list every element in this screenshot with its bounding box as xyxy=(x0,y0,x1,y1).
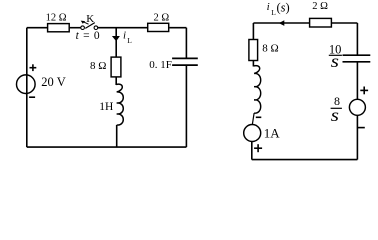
voltage source 8/s xyxy=(349,99,365,115)
voltage source 20V xyxy=(17,75,36,94)
svg-text:s: s xyxy=(331,105,339,125)
inductor 1H xyxy=(116,84,123,125)
label - of 20V source xyxy=(29,96,35,98)
svg-text:L: L xyxy=(271,8,276,17)
svg-text:8 Ω: 8 Ω xyxy=(90,60,106,72)
label + of 1A source xyxy=(254,144,262,152)
label + of 8/s source xyxy=(360,87,368,95)
svg-text:12 Ω: 12 Ω xyxy=(46,13,67,24)
svg-text:i: i xyxy=(123,30,126,42)
svg-text:2 Ω: 2 Ω xyxy=(154,13,170,24)
wire box to coil (right) xyxy=(252,61,254,67)
switch K pole a xyxy=(81,26,85,30)
svg-text:s: s xyxy=(331,51,339,71)
wire bottom (left circuit) xyxy=(27,146,187,148)
wire right vertical lower xyxy=(185,66,187,148)
inductor of right circuit xyxy=(254,66,261,114)
wire 2ohm to top-right corner xyxy=(332,22,357,24)
capacitor 10/s top plate xyxy=(343,54,371,56)
svg-text:0. 1F: 0. 1F xyxy=(149,59,172,71)
switch K pole b xyxy=(94,26,98,30)
label + of 20V source xyxy=(30,64,37,71)
switch K blade xyxy=(85,23,95,29)
label 8/s fraction xyxy=(331,94,342,125)
svg-text:i: i xyxy=(267,1,270,13)
resistor 2ohm (right circuit) xyxy=(310,18,332,27)
svg-text:2 Ω: 2 Ω xyxy=(312,1,328,12)
svg-text:8 Ω: 8 Ω xyxy=(262,43,278,55)
wire switch to junction to 2ohm xyxy=(98,27,148,29)
wire right vertical upper xyxy=(185,28,187,58)
label 10/s fraction xyxy=(329,43,342,71)
wire 2ohm to top-right corner xyxy=(169,27,186,29)
label iL xyxy=(123,30,132,45)
arrow iL current direction xyxy=(112,36,120,41)
label - of 1A source xyxy=(256,116,261,118)
wire left vertical xyxy=(26,28,28,147)
label iL(s) xyxy=(267,1,290,17)
svg-text:L: L xyxy=(127,36,132,45)
wire top-left segment xyxy=(27,27,47,29)
resistor 12ohm xyxy=(48,24,70,32)
resistor 2ohm (left circuit) xyxy=(148,23,169,31)
wire 8/s source to bottom-right corner xyxy=(356,115,358,159)
svg-text:(s): (s) xyxy=(277,1,290,15)
svg-text:1H: 1H xyxy=(99,101,113,113)
resistor 8ohm (left circuit) xyxy=(111,57,121,77)
wire coil to bottom xyxy=(116,125,118,147)
label - of 8/s source xyxy=(358,127,365,129)
wire middle branch upper xyxy=(115,28,117,57)
wire coil to 1A source xyxy=(252,113,254,125)
svg-text:20 V: 20 V xyxy=(41,75,65,89)
source 1A xyxy=(244,125,261,142)
switch K actuation arrow xyxy=(81,21,89,25)
capacitor 0.1F bottom plate xyxy=(172,64,198,66)
capacitor 0.1F top plate xyxy=(172,57,198,59)
wire right vertical upper xyxy=(356,23,358,55)
capacitor 10/s bottom plate xyxy=(343,61,371,63)
svg-text:t = 0: t = 0 xyxy=(76,30,101,42)
wire top (right circuit) xyxy=(253,22,309,24)
svg-text:1A: 1A xyxy=(264,125,281,140)
resistor 8ohm (right circuit) xyxy=(249,40,258,61)
wire bottom (right circuit) xyxy=(252,159,358,161)
svg-text:K: K xyxy=(86,13,94,25)
wire 1A source to bottom (right circuit) xyxy=(251,141,253,159)
arrow iL(s) current direction xyxy=(279,20,285,26)
wire box to coil xyxy=(115,78,117,86)
wire resistor to switch xyxy=(70,27,81,29)
wire between cap and 8/s source xyxy=(356,62,358,99)
wire left vertical upper (right circuit) xyxy=(252,23,254,39)
